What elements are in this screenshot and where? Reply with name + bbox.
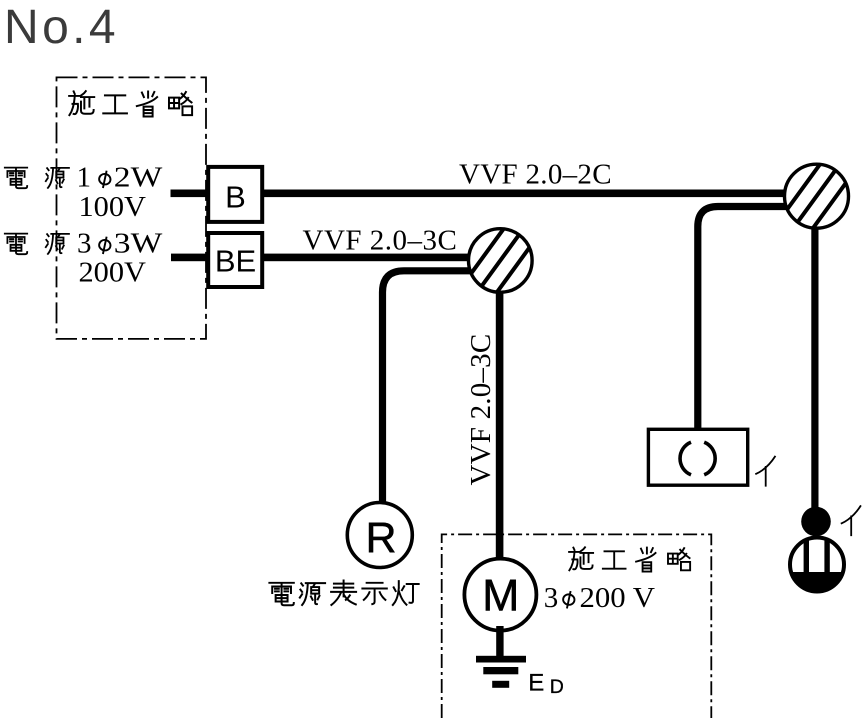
svg-text:VVF 2.0–3C: VVF 2.0–3C xyxy=(465,334,497,486)
svg-text:3W: 3W xyxy=(114,228,163,260)
junction box J2 (right) xyxy=(777,150,856,242)
ground symbol xyxy=(476,626,526,688)
wire source stub to BE xyxy=(171,254,207,262)
motor M xyxy=(464,559,536,631)
wire B to junction box J2 (VVF 2.0-2C) xyxy=(264,190,800,198)
pilot lamp R xyxy=(347,503,412,568)
label 施工省略 (motor) xyxy=(569,547,690,571)
dashed box 施工省略 motor xyxy=(442,534,712,718)
svg-text:BE: BE xyxy=(215,244,256,279)
svg-text:D: D xyxy=(550,676,564,698)
wire J2 to switch box xyxy=(698,207,788,431)
svg-text:1: 1 xyxy=(77,162,92,194)
dashed box 施工省略 source xyxy=(57,77,207,339)
svg-text:200 V: 200 V xyxy=(580,582,656,614)
label 3φ200 V xyxy=(544,582,655,614)
svg-text:3: 3 xyxy=(77,228,92,260)
breaker BE xyxy=(208,233,262,287)
label 電源 3φ3W xyxy=(5,228,163,260)
wire BE to junction box J1 (VVF 2.0-3C) xyxy=(264,254,480,262)
wire source stub to B xyxy=(171,190,207,198)
svg-text:VVF 2.0–3C: VVF 2.0–3C xyxy=(303,225,458,257)
svg-text:No.4: No.4 xyxy=(4,1,119,54)
junction box J1 (middle) xyxy=(461,215,540,307)
svg-text:M: M xyxy=(482,571,519,620)
label イ (switch) xyxy=(756,457,775,486)
svg-text:R: R xyxy=(365,514,396,562)
breaker B xyxy=(208,167,262,222)
svg-text:B: B xyxy=(225,179,246,214)
svg-text:200V: 200V xyxy=(79,256,147,288)
label 電源表示灯 xyxy=(269,581,418,606)
wire J1 to motor M xyxy=(496,288,504,558)
svg-text:3: 3 xyxy=(544,582,559,614)
label 電源 1φ2W xyxy=(5,162,163,194)
label ED xyxy=(528,669,564,698)
label イ (pendant) xyxy=(842,506,861,535)
wire J2 to pendant xyxy=(811,224,818,510)
switch box ( ) xyxy=(648,429,747,485)
svg-text:E: E xyxy=(528,669,544,696)
pendant lamp xyxy=(788,538,846,597)
svg-text:2W: 2W xyxy=(114,162,163,194)
pendant cap xyxy=(801,507,831,537)
wire J1 to pilot lamp R xyxy=(383,271,473,502)
svg-text:100V: 100V xyxy=(79,191,147,223)
svg-text:VVF 2.0–2C: VVF 2.0–2C xyxy=(459,158,612,190)
label 施工省略 (source) xyxy=(69,91,192,116)
